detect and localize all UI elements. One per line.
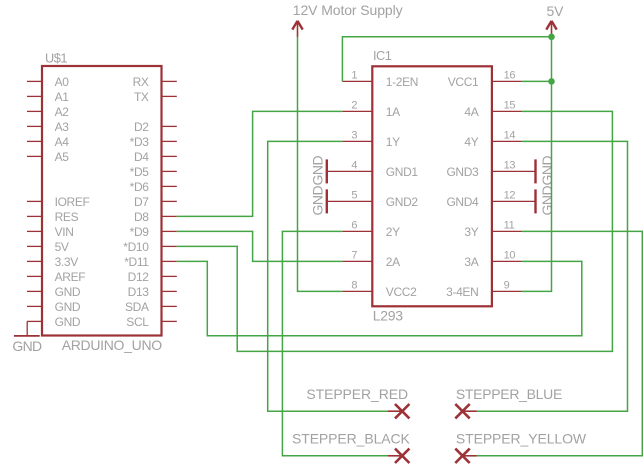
svg-text:3A: 3A: [464, 255, 478, 269]
svg-text:3Y: 3Y: [464, 225, 478, 239]
svg-text:1-2EN: 1-2EN: [386, 75, 418, 89]
node STEPPER_BLACK open end: [388, 449, 409, 463]
svg-text:SDA: SDA: [125, 300, 149, 314]
svg-text:IC1: IC1: [373, 48, 392, 63]
U$1 pin RES (left): [27, 210, 79, 224]
svg-text:RES: RES: [55, 210, 79, 224]
svg-text:5V: 5V: [55, 240, 69, 254]
U$1 pin D12 (right): [128, 270, 177, 284]
L293 value label: [373, 308, 403, 324]
U$1 pin SDA (right): [125, 300, 177, 314]
svg-text:GND1: GND1: [386, 165, 419, 179]
IC1 pin 5 GND2 (left) with GND symbol: [327, 189, 419, 213]
svg-text:16: 16: [504, 70, 516, 82]
svg-text:VCC1: VCC1: [448, 75, 479, 89]
node STEPPER_YELLOW open end: [455, 449, 476, 463]
svg-text:STEPPER_BLUE: STEPPER_BLUE: [456, 386, 562, 402]
U$1 pin GND (left): [27, 315, 81, 329]
U$1 pin GND (left): [27, 300, 81, 314]
svg-text:4A: 4A: [464, 105, 478, 119]
ARDUINO_UNO value label: [62, 337, 163, 353]
svg-text:GND3: GND3: [446, 165, 479, 179]
svg-text:D2: D2: [134, 120, 149, 134]
svg-text:GND: GND: [55, 300, 81, 314]
IC1 pin 16 VCC1 (right): [448, 70, 522, 89]
U$1 pin A2 (left): [27, 105, 69, 119]
STEPPER_RED net label: [306, 386, 408, 402]
svg-text:GND: GND: [539, 186, 555, 216]
U$1 pin A0 (left): [27, 75, 69, 89]
IC1 pin 13 GND3 (right) with GND symbol: [446, 159, 535, 183]
wire IC1 pin 14 4Y to STEPPER_BLUE: [472, 141, 628, 411]
svg-text:D13: D13: [128, 285, 150, 299]
svg-text:*D10: *D10: [123, 240, 149, 254]
IC1 pin 10 3A (right): [464, 250, 521, 269]
junction 5V at top: [548, 34, 555, 41]
U$1 pin D7 (right): [134, 195, 177, 209]
IC1 pin 7 2A (left): [342, 250, 400, 269]
svg-text:A3: A3: [55, 120, 70, 134]
wire IC1 pin 11 3Y to STEPPER_YELLOW: [472, 231, 643, 455]
svg-text:GND: GND: [12, 338, 42, 354]
svg-text:*D6: *D6: [130, 180, 150, 194]
U$1 pin VIN (left): [27, 225, 74, 239]
STEPPER_BLUE net label: [456, 386, 562, 402]
ground symbol (Arduino GND): [14, 321, 40, 336]
junction 5V at VCC1: [548, 78, 555, 85]
svg-text:L293: L293: [373, 308, 403, 324]
svg-text:SCL: SCL: [126, 315, 149, 329]
U$1 pin *D6 (right): [130, 180, 177, 194]
U$1 pin A1 (left): [27, 90, 69, 104]
svg-text:7: 7: [351, 250, 357, 262]
svg-text:D4: D4: [134, 150, 149, 164]
svg-text:STEPPER_RED: STEPPER_RED: [306, 386, 408, 402]
svg-text:*D9: *D9: [130, 225, 150, 239]
svg-text:VCC2: VCC2: [386, 285, 417, 299]
svg-text:A5: A5: [55, 150, 70, 164]
U$1 pin TX (right): [134, 90, 177, 104]
node STEPPER_RED open end: [388, 404, 409, 418]
svg-text:A0: A0: [55, 75, 70, 89]
U$1 pin *D10 (right): [123, 240, 176, 254]
12V supply arrow symbol: [292, 21, 302, 37]
svg-text:9: 9: [504, 280, 510, 292]
wire IC1 pin 3 1Y to STEPPER_RED: [268, 141, 389, 411]
IC1 pin 12 GND4 (right) with GND symbol: [446, 189, 535, 213]
svg-text:4: 4: [351, 160, 357, 172]
svg-text:1: 1: [351, 70, 357, 82]
U$1 pin *D11 (right): [124, 255, 177, 269]
IC1 pin 1 1-2EN (left): [342, 70, 418, 89]
svg-text:RX: RX: [133, 75, 149, 89]
wire IC1 pin 1 1-2EN to 5V rail: [342, 37, 551, 82]
5V supply arrow symbol: [546, 21, 556, 37]
U$1 pin A3 (left): [27, 120, 69, 134]
svg-text:STEPPER_YELLOW: STEPPER_YELLOW: [456, 431, 587, 447]
svg-text:14: 14: [504, 130, 516, 142]
U$1 pin RX (right): [133, 75, 177, 89]
GND net labels (left, rotated): [309, 156, 325, 216]
STEPPER_YELLOW net label: [456, 431, 587, 447]
U$1 pin D8 (right): [134, 210, 177, 224]
U$1 name label: [45, 51, 67, 66]
svg-text:*D3: *D3: [130, 135, 150, 149]
STEPPER_BLACK net label: [292, 431, 411, 447]
svg-text:A4: A4: [55, 135, 70, 149]
wire D8 to IC1 pin 2 1A: [177, 111, 342, 216]
wire IC1 pin 6 2Y to STEPPER_BLACK: [282, 231, 389, 455]
svg-text:2A: 2A: [386, 255, 400, 269]
node STEPPER_BLUE open end: [455, 404, 476, 418]
svg-text:12: 12: [504, 190, 516, 202]
svg-text:10: 10: [504, 250, 516, 262]
U$1 pin *D9 (right): [130, 225, 177, 239]
U$1 pin IOREF (left): [27, 195, 90, 209]
svg-text:GND2: GND2: [386, 195, 419, 209]
IC1 pin 2 1A (left): [342, 100, 400, 119]
svg-text:GND: GND: [309, 186, 325, 216]
svg-text:3: 3: [351, 130, 357, 142]
svg-text:*D5: *D5: [130, 165, 150, 179]
svg-text:11: 11: [504, 220, 515, 232]
svg-text:3.3V: 3.3V: [55, 255, 79, 269]
svg-text:TX: TX: [134, 90, 149, 104]
svg-text:GND: GND: [309, 156, 325, 186]
wire 12V supply to IC1 VCC2 pin 8: [298, 37, 343, 292]
svg-text:VIN: VIN: [55, 225, 74, 239]
IC1 pin 15 4A (right): [464, 100, 521, 119]
wire *D11 to IC1 pin 10 3A: [177, 261, 582, 335]
svg-text:1Y: 1Y: [386, 135, 400, 149]
wire *D10 to IC1 pin 15 4A: [177, 111, 613, 351]
svg-text:3-4EN: 3-4EN: [446, 285, 478, 299]
IC1 pin 11 3Y (right): [464, 220, 521, 239]
svg-text:8: 8: [351, 280, 357, 292]
svg-text:GND: GND: [539, 156, 555, 186]
svg-text:D12: D12: [128, 270, 150, 284]
svg-text:6: 6: [351, 220, 357, 232]
U$1 pin SCL (right): [126, 315, 176, 329]
IC1 pin 6 2Y (left): [342, 220, 400, 239]
svg-text:GND: GND: [55, 285, 81, 299]
svg-text:2: 2: [351, 100, 357, 112]
svg-text:GND: GND: [55, 315, 81, 329]
svg-text:IOREF: IOREF: [55, 195, 90, 209]
IC IC1 L293 body: [372, 66, 492, 306]
svg-text:5: 5: [351, 190, 357, 202]
svg-text:12V Motor Supply: 12V Motor Supply: [293, 2, 403, 18]
svg-text:GND4: GND4: [446, 195, 479, 209]
wire *D9 to IC1 pin 7 2A: [177, 231, 342, 261]
IC1 pin 3 1Y (left): [342, 130, 400, 149]
svg-text:ARDUINO_UNO: ARDUINO_UNO: [62, 337, 163, 353]
IC1 pin 4 GND1 (left) with GND symbol: [327, 159, 419, 183]
12V Motor Supply net label: [293, 2, 403, 18]
svg-text:D8: D8: [134, 210, 149, 224]
svg-text:U$1: U$1: [45, 51, 67, 66]
IC1 pin 14 4Y (right): [464, 130, 521, 149]
U$1 pin A4 (left): [27, 135, 69, 149]
IC1 name label: [373, 48, 392, 63]
U$1 pin AREF (left): [27, 270, 85, 284]
svg-text:A2: A2: [55, 105, 70, 119]
U$1 pin D4 (right): [134, 150, 177, 164]
svg-text:13: 13: [504, 160, 516, 172]
svg-text:AREF: AREF: [55, 270, 86, 284]
U$1 pin D13 (right): [128, 285, 177, 299]
svg-text:1A: 1A: [386, 105, 400, 119]
5V net label: [547, 3, 565, 19]
svg-text:2Y: 2Y: [386, 225, 400, 239]
svg-text:STEPPER_BLACK: STEPPER_BLACK: [292, 431, 411, 447]
svg-text:A1: A1: [55, 90, 70, 104]
IC U$1 ARDUINO_UNO body: [42, 66, 162, 336]
IC1 pin 8 VCC2 (left): [342, 280, 417, 299]
svg-text:15: 15: [504, 100, 516, 112]
svg-text:5V: 5V: [547, 3, 565, 19]
U$1 pin GND (left): [27, 285, 81, 299]
U$1 pin A5 (left): [27, 150, 69, 164]
svg-text:4Y: 4Y: [464, 135, 478, 149]
svg-text:D7: D7: [134, 195, 149, 209]
svg-text:*D11: *D11: [124, 255, 149, 269]
U$1 pin *D3 (right): [130, 135, 177, 149]
GND net labels (right, rotated): [539, 156, 555, 216]
U$1 pin D2 (right): [134, 120, 177, 134]
wire IC1 pin 16 VCC1 to 5V rail: [522, 80, 552, 82]
IC1 pin 9 3-4EN (right): [446, 280, 522, 299]
U$1 pin 3.3V (left): [27, 255, 78, 269]
GND net label (bottom left): [12, 338, 42, 354]
U$1 pin 5V (left): [27, 240, 69, 254]
U$1 pin *D5 (right): [130, 165, 177, 179]
wire 5V vertical rail to IC1 pin 9 3-4EN: [522, 37, 552, 292]
